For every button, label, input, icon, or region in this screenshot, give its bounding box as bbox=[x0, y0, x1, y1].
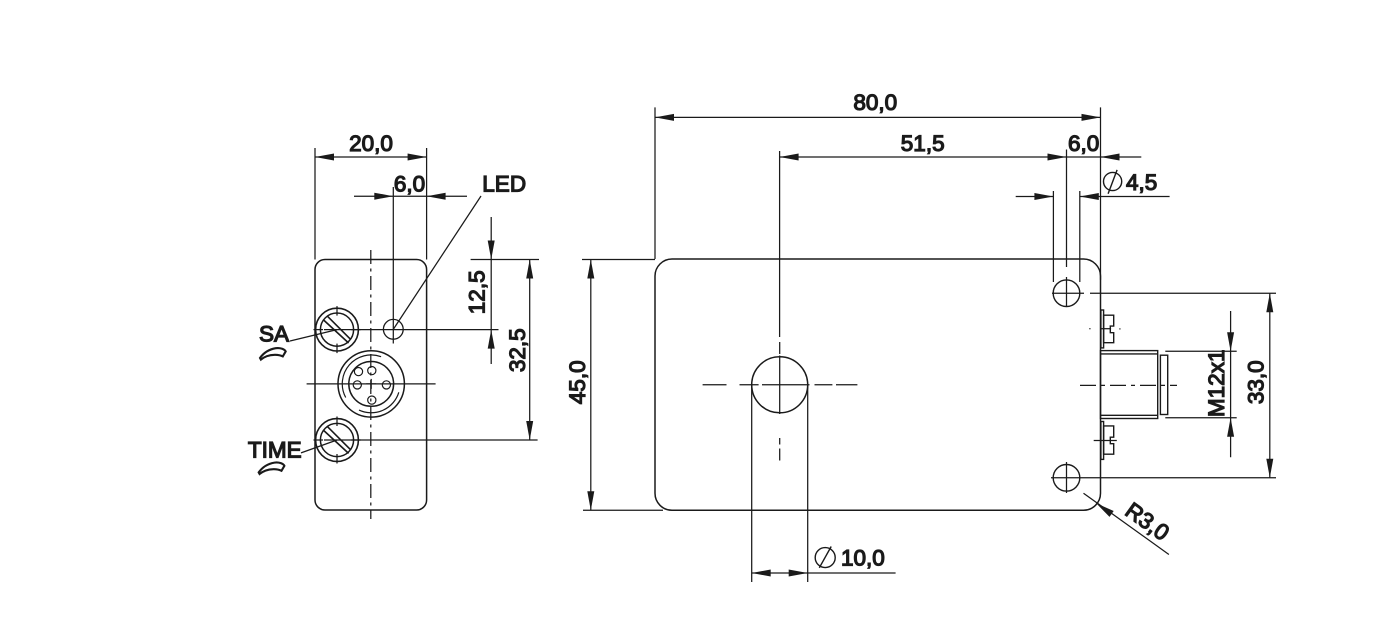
center hole bbox=[752, 357, 808, 413]
barrel center line bbox=[1080, 384, 1177, 386]
left view body bbox=[315, 260, 427, 511]
svg-text:LED: LED bbox=[482, 171, 526, 196]
svg-text:20,0: 20,0 bbox=[349, 131, 393, 156]
dimension 45,0 bbox=[565, 260, 663, 511]
connector horizontal center line bbox=[307, 383, 436, 385]
svg-text:4,5: 4,5 bbox=[1126, 170, 1157, 195]
dimension 6,0 left bbox=[354, 171, 467, 343]
SA row extension line bbox=[324, 329, 499, 331]
dimension M12x1 bbox=[1165, 311, 1236, 457]
bottom mounting hole bbox=[1053, 465, 1080, 492]
dimension 32,5 bbox=[505, 260, 533, 441]
svg-text:10,0: 10,0 bbox=[841, 545, 885, 570]
M12 connector face bbox=[338, 351, 404, 417]
center hole horizontal center line bbox=[703, 384, 858, 386]
dimension diameter 4,5 bbox=[1016, 170, 1170, 282]
svg-text:TIME: TIME bbox=[248, 437, 302, 462]
dimension 20,0 bbox=[315, 131, 427, 260]
bottom hole vertical center line bbox=[1066, 462, 1068, 493]
svg-text:33,0: 33,0 bbox=[1244, 360, 1269, 404]
upper tab center line bbox=[1089, 328, 1120, 330]
TIME leader bbox=[301, 440, 337, 453]
top mounting hole bbox=[1053, 280, 1080, 307]
SA screw bbox=[314, 306, 361, 353]
SA leader bbox=[290, 330, 337, 341]
top hole vertical center line bbox=[1066, 277, 1068, 307]
dimension R3,0 bbox=[1084, 493, 1174, 554]
svg-text:80,0: 80,0 bbox=[853, 90, 897, 115]
left view vertical center line bbox=[370, 250, 372, 519]
TIME row extension line bbox=[324, 439, 538, 441]
dimension diameter 10,0 bbox=[752, 385, 896, 582]
LED hole bbox=[383, 319, 403, 339]
TIME adjust symbol bbox=[259, 462, 285, 474]
right view body bbox=[655, 259, 1101, 510]
svg-text:12,5: 12,5 bbox=[465, 270, 490, 314]
svg-text:32,5: 32,5 bbox=[505, 328, 530, 372]
dimension 80,0 bbox=[655, 90, 1101, 280]
top hole horizontal center line bbox=[1052, 292, 1084, 294]
lower tab bbox=[1101, 422, 1114, 460]
dimension 12,5 bbox=[465, 217, 495, 364]
svg-text:SA: SA bbox=[259, 321, 289, 346]
svg-text:45,0: 45,0 bbox=[565, 360, 590, 404]
TIME screw bbox=[314, 417, 361, 464]
svg-text:6,0: 6,0 bbox=[1068, 131, 1099, 156]
SA adjust symbol bbox=[260, 348, 286, 360]
svg-text:M12x1: M12x1 bbox=[1204, 350, 1229, 418]
body top extension line (12,5 / 32,5 reference) bbox=[471, 259, 539, 261]
svg-text:6,0: 6,0 bbox=[394, 171, 425, 196]
upper tab bbox=[1101, 310, 1114, 348]
dimension 51,5 and 6,0 right bbox=[780, 131, 1142, 337]
LED leader bbox=[394, 196, 482, 329]
svg-text:51,5: 51,5 bbox=[901, 131, 945, 156]
center hole vertical center line bbox=[779, 342, 781, 461]
connector barrel bbox=[1101, 351, 1168, 419]
lower tab center line bbox=[1094, 440, 1117, 442]
dimension 33,0 bbox=[1051, 293, 1276, 478]
